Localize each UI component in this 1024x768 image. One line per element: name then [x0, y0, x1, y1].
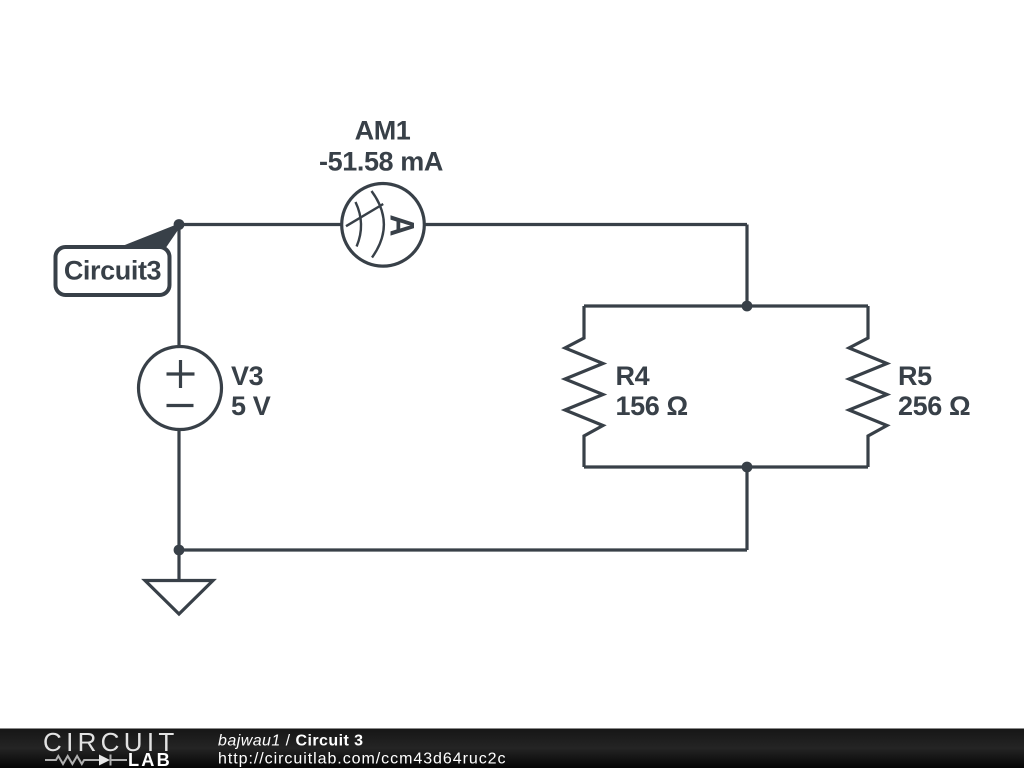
svg-text:http://circuitlab.com/ccm43d64: http://circuitlab.com/ccm43d64ruc2c [218, 751, 506, 768]
svg-text:-51.58 mA: -51.58 mA [319, 147, 443, 177]
svg-text:R5: R5 [898, 361, 932, 391]
voltage source V3 [139, 347, 222, 430]
svg-text:5 V: 5 V [231, 391, 271, 421]
svg-text:Circuit3: Circuit3 [64, 256, 162, 286]
wire: resistor bottom rail [584, 465, 868, 468]
junction node resistor bottom rail [742, 462, 753, 473]
wire: resistor top rail [584, 304, 868, 307]
footer bar [0, 729, 1024, 768]
svg-text:bajwau1 / Circuit 3: bajwau1 / Circuit 3 [218, 733, 364, 750]
svg-text:R4: R4 [616, 361, 650, 391]
svg-text:256 Ω: 256 Ω [898, 391, 970, 421]
ammeter AM1 [342, 184, 425, 267]
footer logo schematic glyph [45, 755, 127, 766]
svg-text:AM1: AM1 [355, 116, 411, 146]
wire: right vertical from top rail to resistor top rail [745, 225, 748, 307]
ground [145, 550, 213, 614]
resistor R5 [849, 306, 887, 467]
svg-text:A: A [383, 215, 421, 237]
wire: top rail from node A to right corner [179, 223, 747, 226]
junction node resistor top rail [742, 301, 753, 312]
wire: left branch vertical through V3 [177, 225, 180, 551]
node label Circuit3 [56, 224, 180, 296]
svg-text:LAB: LAB [128, 750, 172, 768]
svg-text:V3: V3 [231, 361, 264, 391]
wire: vertical from bottom rail junction down [745, 467, 748, 550]
wire: bottom return rail [179, 548, 747, 551]
resistor R4 [565, 306, 603, 467]
junction node bottom-left [174, 545, 185, 556]
junction node top-left [174, 219, 185, 230]
svg-text:156 Ω: 156 Ω [616, 391, 688, 421]
